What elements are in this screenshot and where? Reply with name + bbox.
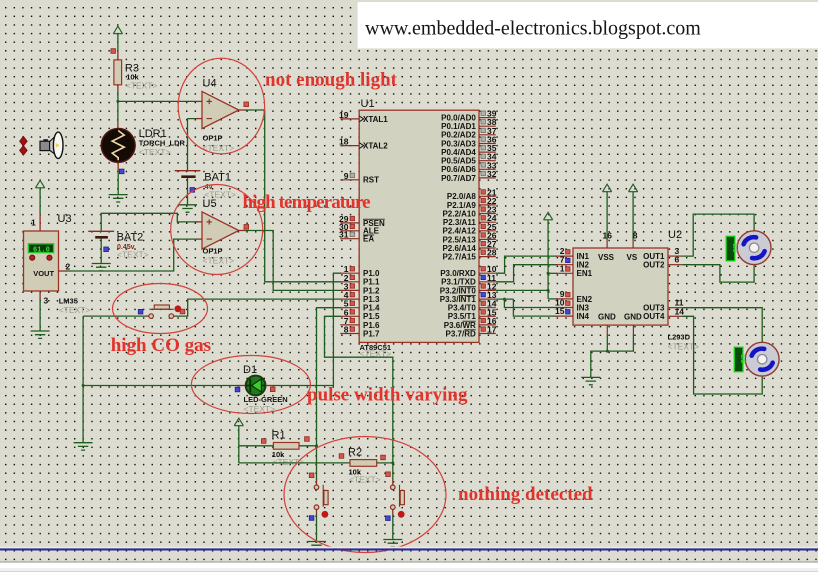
svg-text:U3: U3 <box>58 213 72 225</box>
svg-text:XTAL1: XTAL1 <box>363 115 388 124</box>
power arrow for U2 VS <box>629 184 638 192</box>
wire EN2 stub <box>548 298 557 300</box>
svg-text:R1: R1 <box>272 430 286 442</box>
U2 pin 2 IN1 <box>556 255 573 257</box>
battery BAT1 <box>175 170 201 172</box>
U2 pin 9 EN2 <box>556 298 573 300</box>
svg-text:<TEXT>: <TEXT> <box>360 349 392 359</box>
push button right (nothing detected) <box>392 479 394 485</box>
wire D1 row <box>83 385 238 387</box>
red marker square near R3 top <box>111 49 116 54</box>
U1 pin 12 P3.2/INT0 <box>479 289 496 291</box>
annotation ellipse not enough light <box>178 58 264 154</box>
annotation ellipse high CO gas <box>113 284 208 334</box>
blue marker below LDR <box>119 169 124 174</box>
U1 pin 22 P2.1/A9 <box>479 204 496 206</box>
U1 pin 34 P0.5/AD5 <box>479 160 496 162</box>
wire LDR bottom <box>117 162 119 171</box>
ground under LDR <box>109 195 128 202</box>
U1 pin 3 P1.2 <box>340 289 359 291</box>
U1 pin 21 P2.0/A8 <box>479 195 496 197</box>
svg-text:16: 16 <box>603 231 613 241</box>
svg-text:19: 19 <box>339 110 349 120</box>
red diamond marker 1 <box>20 136 28 146</box>
wire BAT2 to ground <box>100 239 102 264</box>
op-amp U4 <box>202 91 239 128</box>
U1 pin 26 P2.5/A13 <box>479 238 496 240</box>
U4 output red marker <box>244 102 249 107</box>
power arrow feeding R1 R2 <box>234 418 243 426</box>
svg-text:9: 9 <box>344 171 349 181</box>
svg-text:IN4: IN4 <box>577 312 590 321</box>
svg-text:17: 17 <box>487 325 497 335</box>
U1 pin 36 P0.3/AD3 <box>479 143 496 145</box>
wire D1 to P1.0 <box>265 385 274 387</box>
power arrow above U3 pin 1 <box>36 180 45 188</box>
wire R3 top <box>117 52 119 60</box>
svg-text:U1: U1 <box>361 98 375 110</box>
U2 pin 15 IN4 <box>556 315 573 317</box>
U2 pin 10 IN3 <box>556 307 573 309</box>
svg-text:not enough light: not enough light <box>265 70 398 91</box>
U2 pin 11 OUT3 <box>668 307 682 309</box>
svg-text:OP1P: OP1P <box>203 134 223 143</box>
U2 pin 3 OUT1 <box>668 255 682 257</box>
U1 pin 24 P2.3/A11 <box>479 221 496 223</box>
U1 pin 8 P1.7 <box>340 333 359 335</box>
ground under BAT2 <box>92 264 111 271</box>
U1 pin 35 P0.4/AD4 <box>479 151 496 153</box>
blue marker near BAT2 <box>104 247 109 252</box>
U1 pin 39 P0.0/AD0 <box>479 117 496 119</box>
ground under BAT1 <box>178 205 197 212</box>
LDR1 torch_ldr <box>117 121 119 128</box>
power arrow for U2 VSS <box>603 184 612 192</box>
wire left net: button to ground, D1 row <box>83 315 146 317</box>
svg-text:www.embedded-electronics.blogs: www.embedded-electronics.blogspot.com <box>365 18 701 40</box>
svg-text:P3.2/INT0: P3.2/INT0 <box>440 286 477 295</box>
svg-text:-1.8: -1.8 <box>739 352 746 364</box>
svg-text:8: 8 <box>633 231 638 241</box>
svg-text:<TEXT>: <TEXT> <box>59 305 91 315</box>
U1 pin 13 P3.3/INT1 <box>479 298 496 300</box>
wire P3.3 to IN3 and IN4 <box>496 298 514 300</box>
svg-text:<TEXT>: <TEXT> <box>668 342 700 352</box>
svg-text:28: 28 <box>487 248 497 258</box>
U1 pin 29 PSEN <box>340 222 359 224</box>
svg-text:L293D: L293D <box>668 333 691 342</box>
svg-text:P0.7/AD7: P0.7/AD7 <box>441 174 476 183</box>
wire OUT1 to motor1 top <box>682 214 754 256</box>
svg-text:<TEXT>: <TEXT> <box>117 250 149 260</box>
svg-text:U4: U4 <box>203 78 217 90</box>
wire P1.5 jog to right button <box>325 316 393 479</box>
ground bottom-left <box>74 443 93 450</box>
U1 pin 1 P1.0 <box>340 272 359 274</box>
U2 GND pins to ground <box>606 325 608 335</box>
U1 pin 14 P3.4/T0 <box>479 307 496 309</box>
U1 pin 9 RST <box>340 179 359 181</box>
U2 pin 7 IN2 <box>556 264 573 266</box>
svg-text:LED-GREEN: LED-GREEN <box>244 395 288 404</box>
wire OUT3 to motor2 top <box>682 308 762 343</box>
wire P1.4 vertical <box>317 308 342 480</box>
U1 pin 32 P0.7/AD7 <box>479 177 496 179</box>
svg-text:EA: EA <box>363 235 374 244</box>
svg-text:OP1P: OP1P <box>203 247 223 256</box>
wire OUT4 to motor2 bottom <box>682 316 762 394</box>
svg-text:<TEXT>: <TEXT> <box>203 256 235 266</box>
wire U5 - input from U3 VOUT <box>196 238 202 240</box>
U1 pin 38 P0.1/AD1 <box>479 125 496 127</box>
wire EN1 stub <box>548 272 557 274</box>
svg-text:EN1: EN1 <box>577 269 593 278</box>
svg-text:32: 32 <box>487 169 497 179</box>
resistor R3 <box>114 60 122 85</box>
svg-text:31: 31 <box>339 230 349 240</box>
U1 pin 11 P3.1/TXD <box>479 281 496 283</box>
U1 pin 23 P2.2/A10 <box>479 213 496 215</box>
U1 pin 31 EA <box>340 238 359 240</box>
svg-text:RST: RST <box>363 176 379 185</box>
motor 1 <box>737 231 771 265</box>
push button left (nothing detected) <box>316 479 318 485</box>
rpm badge motor 1 <box>726 236 735 260</box>
LED D1 green <box>246 376 266 396</box>
wire U5 output <box>239 230 246 232</box>
red diamond marker 2 <box>20 146 28 156</box>
U2 pin 6 OUT2 <box>668 264 682 266</box>
svg-text:P2.2/A10: P2.2/A10 <box>442 209 476 218</box>
ground under U2 <box>581 377 600 384</box>
svg-text:BAT1: BAT1 <box>204 172 231 184</box>
op-amp U5 <box>202 212 239 249</box>
svg-text:1: 1 <box>31 218 36 228</box>
svg-text:VS: VS <box>627 253 638 262</box>
node junction R3/LDR to U4+ <box>116 100 119 103</box>
U1 pin 5 P1.4 <box>340 307 359 309</box>
svg-text:18: 18 <box>339 137 349 147</box>
wire R3 bottom to junction <box>117 85 119 93</box>
svg-text:high CO gas: high CO gas <box>111 335 211 356</box>
svg-text:2: 2 <box>66 262 71 272</box>
wire P3.0 to IN1 <box>496 256 557 273</box>
wire junction to U4 + input <box>118 100 196 102</box>
U5 output red marker <box>244 225 249 230</box>
svg-text:U5: U5 <box>203 198 217 210</box>
U1 pin 37 P0.2/AD2 <box>479 134 496 136</box>
U1 pin 27 P2.6/A14 <box>479 247 496 249</box>
resistor R2 <box>239 462 350 464</box>
U1 pin 16 P3.6/WR <box>479 324 496 326</box>
U1 pin 25 P2.4/A12 <box>479 230 496 232</box>
U2 pin 8 VS <box>632 240 634 248</box>
svg-text:P1.7: P1.7 <box>363 329 380 338</box>
U1 pin 30 ALE <box>340 230 359 232</box>
svg-text:OUT2: OUT2 <box>643 261 665 270</box>
rpm badge motor 2 <box>734 347 743 372</box>
svg-text:P0.2/AD2: P0.2/AD2 <box>441 131 476 140</box>
svg-text:3: 3 <box>44 296 49 306</box>
microcontroller U1 AT89C51 body <box>359 110 479 342</box>
wire U4 - input to BAT1 <box>196 118 203 120</box>
svg-text:GND: GND <box>598 313 616 322</box>
svg-text:BAT2: BAT2 <box>117 232 144 244</box>
wire U5 + input from BAT2 <box>196 221 202 223</box>
svg-text:8: 8 <box>344 325 349 335</box>
U3 pin2 wire <box>59 270 67 272</box>
push button (high CO gas) <box>146 315 149 317</box>
U1 pin 17 P3.7/RD <box>479 333 496 335</box>
annotation ellipse nothing detected <box>284 437 446 553</box>
wire P3.1 to IN2 <box>496 265 557 282</box>
speaker icon <box>40 132 63 158</box>
wire P3.2 to EN vertical <box>496 289 548 291</box>
resistor R1 <box>239 445 274 447</box>
U1 pin 7 P1.6 <box>340 324 359 326</box>
wire OUT2 to motor1 bottom <box>682 265 754 282</box>
svg-text:nothing detected: nothing detected <box>458 484 593 505</box>
annotation ellipse high temperature <box>171 185 263 275</box>
battery BAT2 <box>88 230 114 232</box>
U2 pin 14 OUT4 <box>668 315 682 317</box>
svg-text:<TEXT>: <TEXT> <box>126 81 158 91</box>
U1 pin 2 P1.1 <box>340 281 359 283</box>
wire BAT1 to ground <box>187 178 189 205</box>
svg-text:OUT4: OUT4 <box>643 312 665 321</box>
svg-text:P2.7/A15: P2.7/A15 <box>442 253 476 262</box>
U1 pin 4 P1.3 <box>340 298 359 300</box>
title box www.embedded-electronics.blogspot.com <box>358 2 818 48</box>
svg-text:-1.8: -1.8 <box>731 241 738 253</box>
U2 pin 16 VSS <box>606 240 608 248</box>
U1 pin 15 P3.5/T1 <box>479 315 496 317</box>
annotation ellipse pulse width varying <box>191 356 310 414</box>
svg-text:<TEXT>: <TEXT> <box>273 457 305 467</box>
U1 pin 28 P2.7/A15 <box>479 256 496 258</box>
wire U4 output <box>239 109 246 111</box>
U1 pin 6 P1.5 <box>340 315 359 317</box>
svg-text:high temperature: high temperature <box>243 192 371 213</box>
svg-text:pulse width varying: pulse width varying <box>307 385 468 406</box>
svg-text:U2: U2 <box>668 229 682 241</box>
motor 2 <box>745 342 779 376</box>
svg-text:P1.2: P1.2 <box>363 286 380 295</box>
svg-text:61.0: 61.0 <box>33 246 50 254</box>
power arrow above R3 <box>113 26 122 34</box>
U1 pin 18 XTAL2 <box>340 145 359 147</box>
U1 pin 19 XTAL1 <box>340 118 359 120</box>
svg-text:D1: D1 <box>243 364 257 376</box>
U1 pin 10 P3.0/RXD <box>479 272 496 274</box>
bottom sheet border lines <box>0 547 818 549</box>
svg-text:6: 6 <box>675 255 680 265</box>
wire button to P1.3 <box>174 315 177 317</box>
U2 pin 1 EN1 <box>556 272 573 274</box>
svg-text:<TEXT>: <TEXT> <box>139 147 171 157</box>
svg-text:GND: GND <box>624 313 642 322</box>
motor driver U2 L293D body <box>573 248 668 325</box>
svg-text:15: 15 <box>555 306 565 316</box>
svg-text:R2: R2 <box>348 447 362 459</box>
svg-text:VOUT: VOUT <box>33 269 54 278</box>
svg-text:P3.7/RD: P3.7/RD <box>446 329 476 338</box>
U1 pin 33 P0.6/AD6 <box>479 168 496 170</box>
blue marker near BAT1 <box>190 188 195 193</box>
U3 pin3 wire + ground <box>39 291 41 300</box>
svg-text:<TEXT>: <TEXT> <box>349 475 381 485</box>
power arrow for U2 EN1 EN2 <box>544 212 553 220</box>
svg-text:VSS: VSS <box>598 253 615 262</box>
svg-text:XTAL2: XTAL2 <box>363 142 388 151</box>
sensor U3 LM35 <box>39 213 41 231</box>
svg-text:1: 1 <box>560 263 565 273</box>
